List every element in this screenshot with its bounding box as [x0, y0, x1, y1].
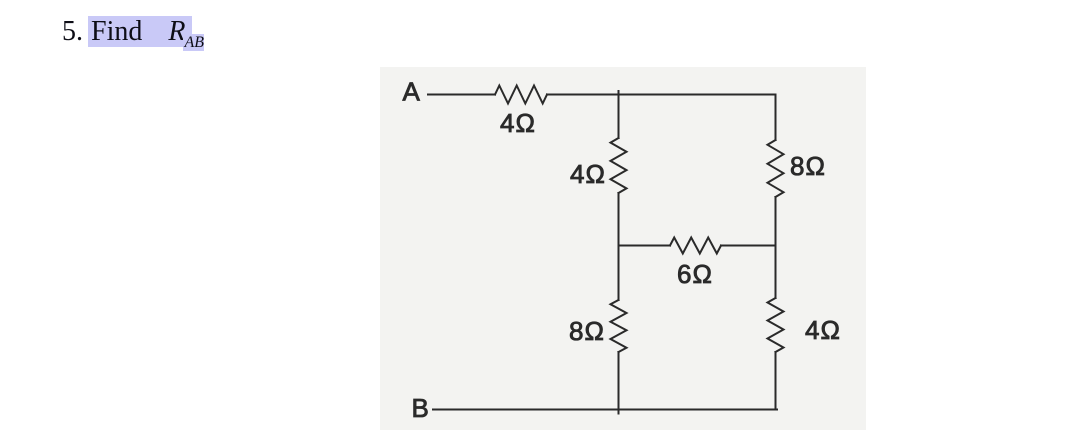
svg-text:4Ω: 4Ω [570, 159, 606, 189]
wire right vertical (middle wire to R6) [775, 246, 777, 299]
bottom wire B [433, 409, 777, 411]
svg-text:6Ω: 6Ω [677, 259, 713, 289]
svg-text:B: B [412, 393, 430, 423]
wire right vertical between R3 and middle wire [775, 197, 777, 246]
resistor R5 8ohm (middle vertical lower) [611, 300, 627, 352]
wire right vertical upper (to R3) [775, 95, 777, 141]
title: 5. Find R_AB [62, 16, 204, 58]
junction stub top middle node [618, 91, 620, 95]
svg-text:4Ω: 4Ω [805, 315, 841, 345]
svg-text:A: A [403, 77, 421, 107]
resistor R3 8ohm (right vertical upper) [768, 140, 784, 197]
svg-text:8Ω: 8Ω [569, 316, 605, 346]
resistor R1 4ohm (top horizontal) [495, 86, 547, 104]
wire A to R1 [428, 94, 495, 96]
wire middle vertical to bottom [618, 352, 620, 410]
wire top: R1 to top-right corner [547, 94, 776, 96]
resistor R6 4ohm (right vertical lower) [768, 298, 784, 352]
junction stub bottom middle node [618, 410, 620, 414]
wire middle vertical upper (to R2) [618, 95, 620, 139]
resistor R2 4ohm (middle vertical upper) [611, 138, 627, 193]
middle wire right part [721, 245, 776, 247]
wire middle vertical between R2 and middle node [618, 193, 620, 246]
wire right vertical to bottom [775, 352, 777, 410]
middle wire left part [619, 245, 671, 247]
wire middle vertical lower (node to R5) [618, 246, 620, 301]
svg-text:8Ω: 8Ω [790, 151, 826, 181]
svg-text:4Ω: 4Ω [500, 108, 536, 138]
circuit image box [380, 67, 866, 430]
resistor R4 6ohm (middle horizontal) [670, 238, 721, 254]
